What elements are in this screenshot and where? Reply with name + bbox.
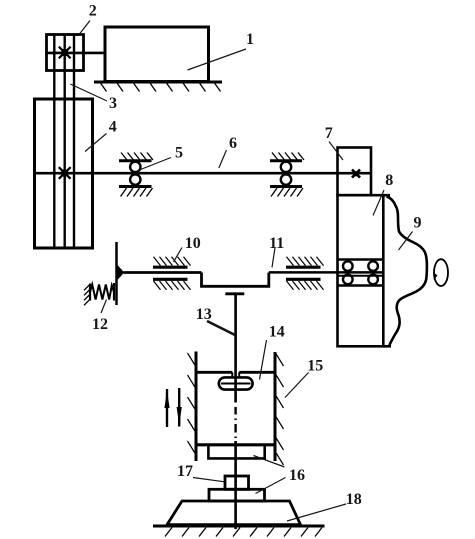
- bearing block inner line: [338, 275, 384, 277]
- guide 10 lower plate: [153, 278, 188, 281]
- pusher rod yoke (stepped middle): [202, 273, 269, 287]
- cam 9 profile: [387, 197, 427, 346]
- bearing block top line in housing 8: [338, 258, 384, 261]
- leader line 1: [188, 49, 247, 70]
- ground line bottom: [153, 525, 325, 528]
- ram rod 13 lower solid segment to ground: [234, 441, 237, 529]
- leader line 18: [287, 504, 346, 521]
- guide 10 upper plate: [153, 266, 188, 269]
- svg-text:13: 13: [196, 306, 212, 323]
- svg-text:15: 15: [307, 358, 323, 375]
- svg-text:7: 7: [325, 125, 333, 142]
- svg-text:3: 3: [109, 95, 117, 112]
- belt lines (part 3) running through both pulleys: [54, 35, 74, 249]
- bearing 5 (left) balls: [130, 162, 140, 172]
- slider housing 15 right wall: [274, 352, 277, 461]
- small step pulley (part 2): [47, 35, 84, 71]
- svg-text:9: 9: [414, 215, 422, 232]
- lever vertical bar (left end of pusher rod): [115, 242, 118, 305]
- slider housing 15 left wall: [195, 352, 198, 462]
- bearing box 7: [338, 148, 372, 196]
- leader line 15: [285, 373, 309, 398]
- leader line 4: [85, 134, 107, 152]
- guide 11 lower plate: [286, 278, 321, 281]
- housing hatching left: [188, 353, 196, 454]
- leader line 5: [138, 158, 171, 171]
- ram rod 13 solid below slot: [234, 390, 237, 403]
- spring 12 zigzag: [90, 285, 114, 300]
- leader line 9: [399, 232, 413, 251]
- leader line 17: [193, 478, 225, 482]
- shaft 6 (pulley 4 centerline to bearing box 7): [35, 172, 371, 175]
- axis line into housing 8: [269, 271, 384, 274]
- ground line under motor: [94, 81, 222, 84]
- housing hatching right: [276, 353, 284, 465]
- housing 8 bottom line extension under cam: [383, 345, 391, 348]
- bearing 5 (right) hatching: [271, 153, 304, 197]
- T-slot stadium in slider 14: [219, 377, 253, 389]
- X mark in box 7: [354, 171, 359, 176]
- guide 11 upper plate: [286, 266, 321, 269]
- pivot triangle on lever: [117, 265, 124, 281]
- ground hatching bottom: [165, 528, 322, 537]
- bearing block bottom line in housing 8: [338, 284, 384, 287]
- spring 12 left anchor hatching: [84, 284, 90, 305]
- guide 10 hatching: [154, 257, 191, 290]
- gear housing 8: [338, 195, 384, 346]
- svg-text:8: 8: [385, 172, 393, 189]
- svg-text:1: 1: [246, 31, 254, 48]
- housing 8 top line extension under cam: [383, 194, 390, 197]
- svg-text:2: 2: [89, 3, 97, 20]
- die holder block (labelled 16 lower): [209, 489, 265, 501]
- svg-text:4: 4: [109, 119, 117, 136]
- bearing block balls: [343, 261, 353, 271]
- rotation arrowhead on ellipse: [433, 272, 437, 280]
- leader line 2: [80, 21, 91, 35]
- punch 17 small block: [225, 476, 249, 489]
- leader line 11: [272, 248, 275, 268]
- rotation ellipse: [434, 259, 448, 286]
- bearing 5 (right) balls: [281, 162, 291, 172]
- punch holder plate 16 (upper): [208, 445, 264, 459]
- bearing 5 (left) hatching: [121, 153, 154, 197]
- motion arrows (up): [166, 389, 168, 427]
- bearing 5 (right) plates: [270, 159, 302, 162]
- svg-text:18: 18: [346, 491, 362, 508]
- slider bottom line: [196, 443, 275, 446]
- leader line 8: [373, 190, 384, 216]
- leader line 3: [70, 84, 107, 101]
- leader line 6: [219, 150, 227, 168]
- T-slot middle line: [221, 383, 251, 385]
- ram rod 13 upper solid segment: [234, 294, 237, 390]
- leader line 12: [101, 300, 107, 314]
- leader line 14: [260, 340, 267, 380]
- ram rod 13 dash-dot centerline: [234, 407, 236, 438]
- motor shaft to pulley 2: [47, 52, 106, 55]
- svg-text:16: 16: [289, 467, 305, 484]
- T-bar head of ram rod 13: [225, 292, 244, 295]
- svg-text:6: 6: [229, 135, 237, 152]
- svg-text:11: 11: [269, 235, 284, 252]
- svg-text:14: 14: [269, 324, 285, 341]
- svg-text:10: 10: [185, 235, 201, 252]
- svg-text:12: 12: [92, 316, 108, 333]
- leader line 7: [329, 142, 343, 161]
- bearing star on pulley 2 shaft: [61, 49, 68, 56]
- svg-text:17: 17: [177, 463, 193, 480]
- svg-text:5: 5: [175, 145, 183, 162]
- large step pulley (part 4): [35, 99, 93, 248]
- spring 12 end bars: [89, 284, 91, 301]
- rod gap cheeks: [231, 372, 233, 378]
- leader line 10: [174, 248, 183, 263]
- bearing star on pulley 4 shaft: [61, 170, 68, 177]
- leader lines 16: [254, 456, 285, 468]
- pusher rod left segment: [124, 271, 202, 274]
- ground hatching under motor: [101, 83, 221, 92]
- guide 11 hatching: [287, 257, 324, 290]
- motor M1 (part 1): [105, 27, 209, 82]
- anvil base 18: [167, 501, 301, 525]
- motion arrows (down): [178, 388, 180, 427]
- leader line 13 (thick): [207, 321, 235, 335]
- bearing 5 (left) plates: [119, 159, 152, 162]
- slider 14 top line (with rod gap): [196, 371, 232, 374]
